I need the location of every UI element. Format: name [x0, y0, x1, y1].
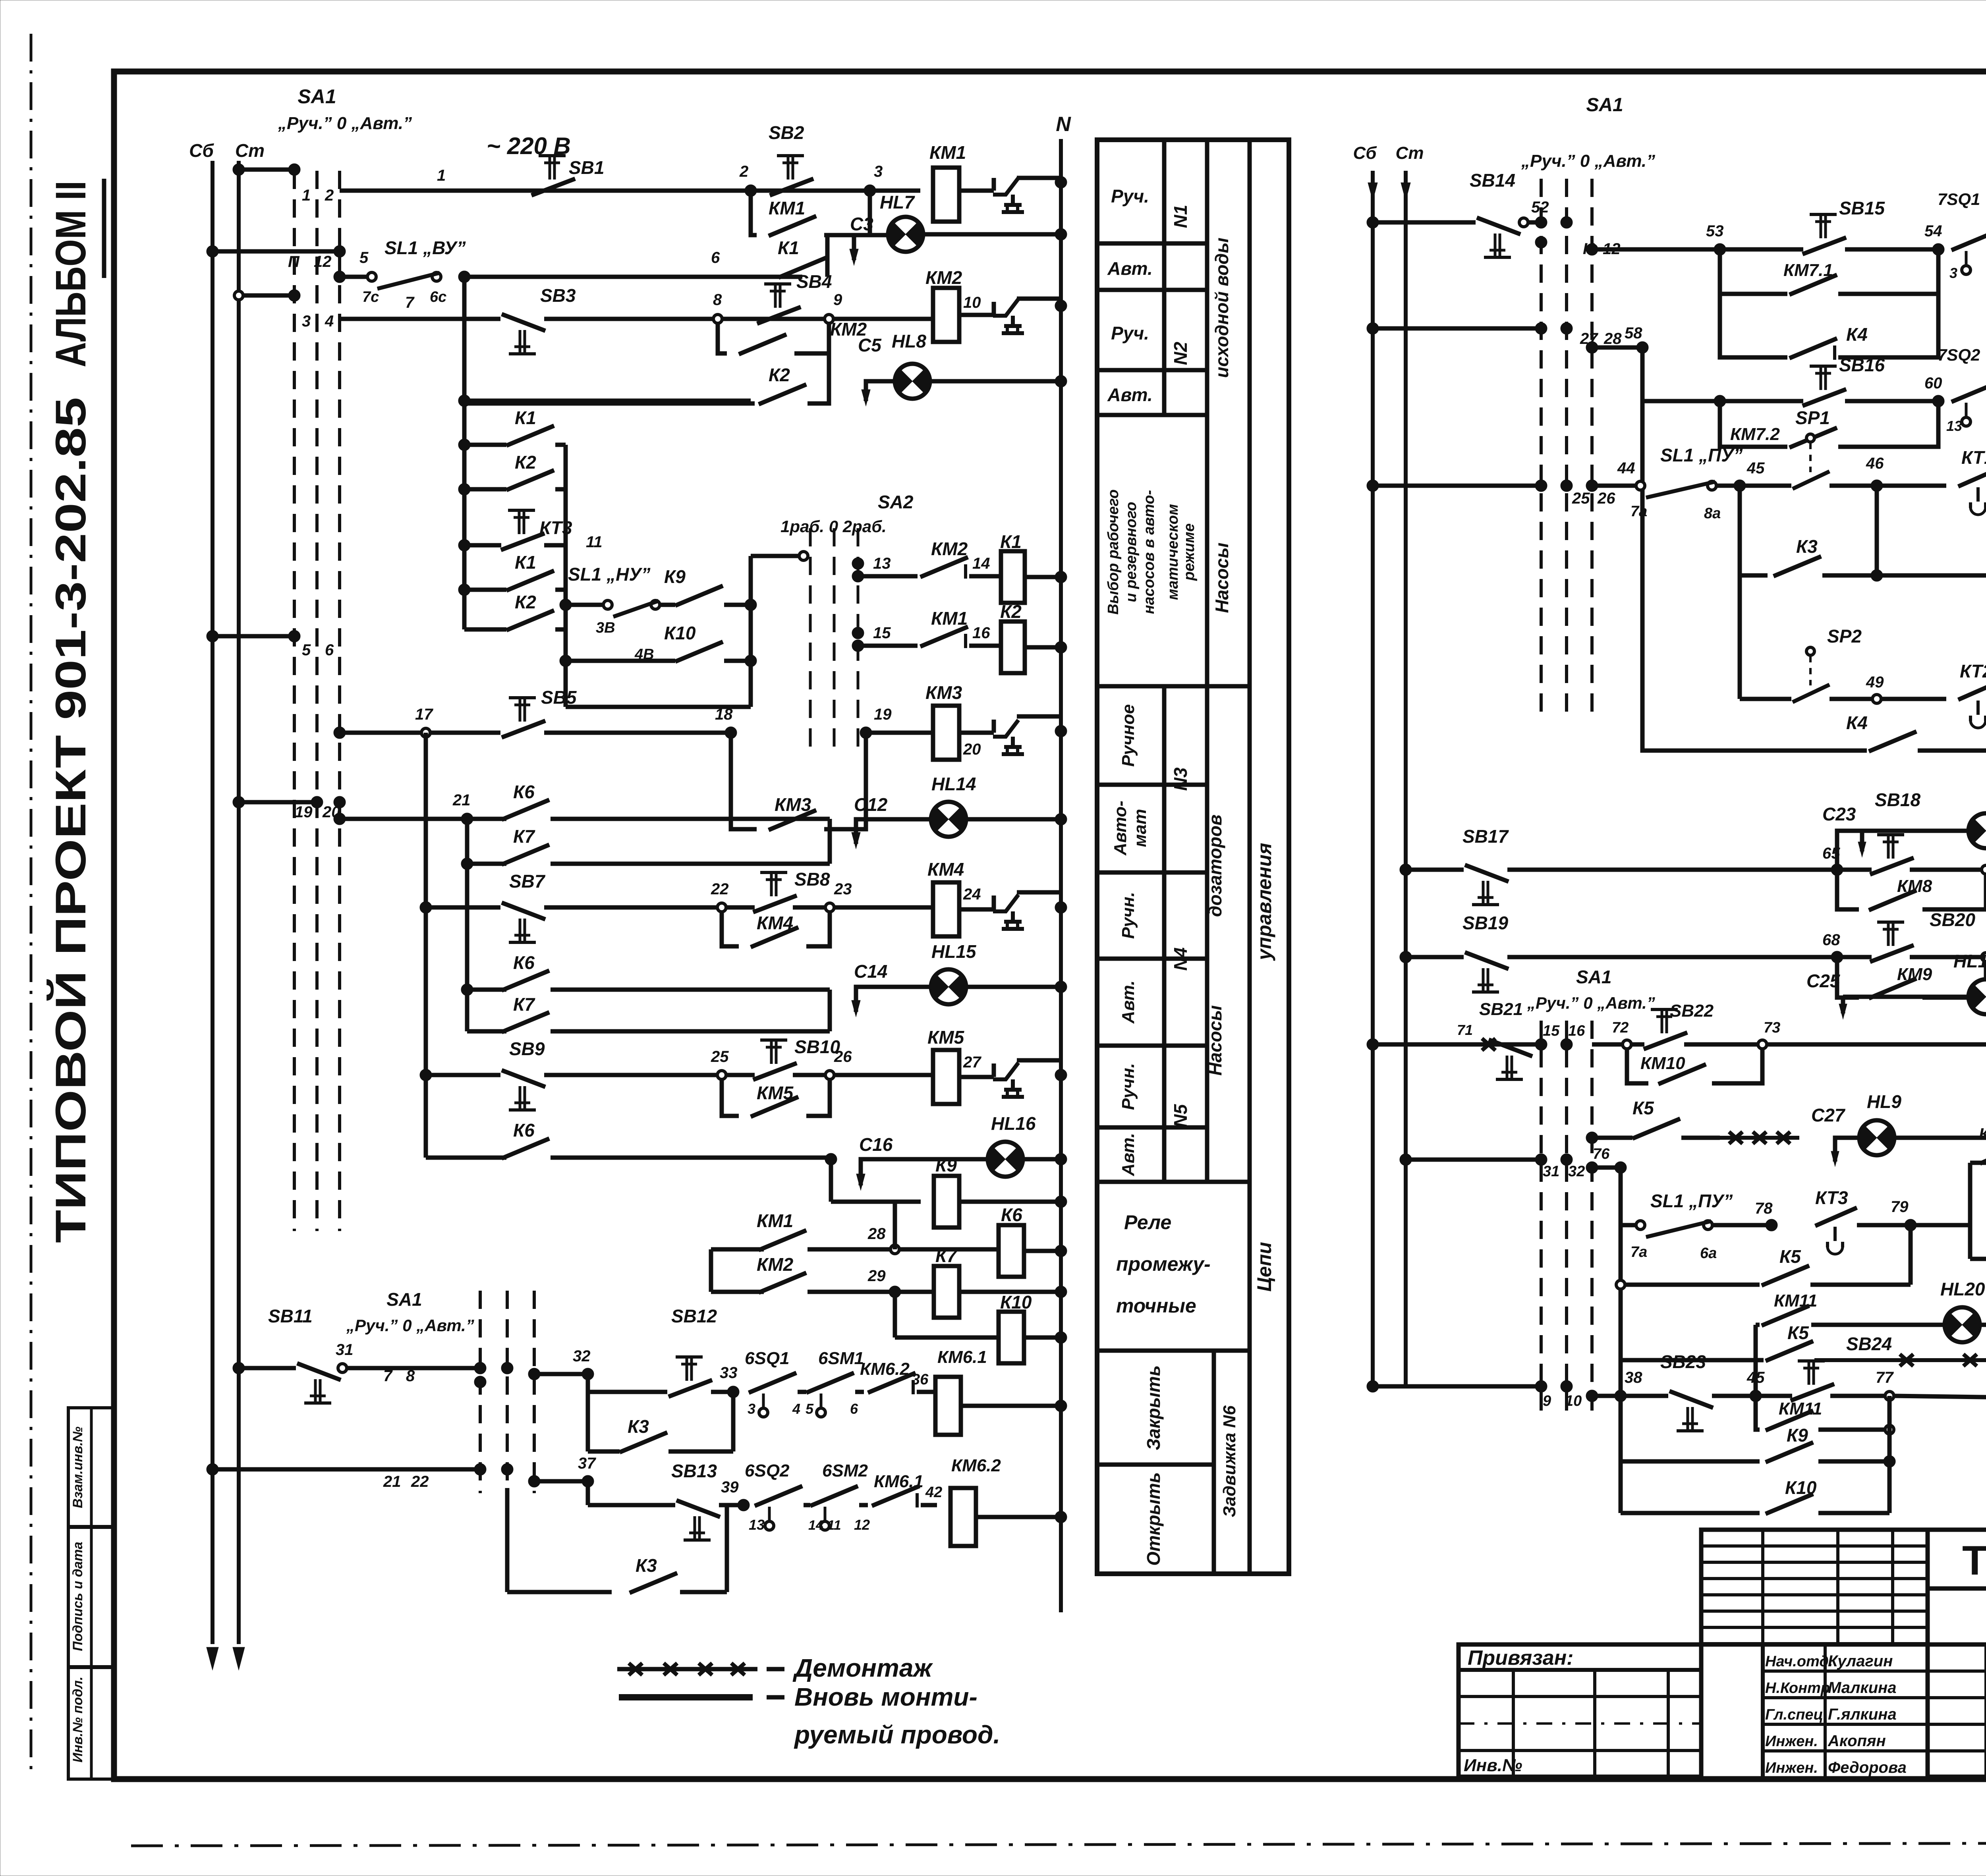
wire 6 to K1 [464, 275, 802, 279]
svg-text:C12: C12 [854, 794, 888, 815]
svg-text:SB14: SB14 [1470, 170, 1515, 191]
svg-text:К6: К6 [513, 1120, 535, 1141]
rung SB11 [233, 1362, 245, 1374]
coil KM10 [1767, 1042, 1986, 1047]
wire jumper 3-4 [239, 293, 294, 298]
limit contact 6SQ1 [749, 1373, 796, 1393]
rung SB7 [424, 733, 428, 1075]
svg-text:„Руч.” 0 „Авт.”: „Руч.” 0 „Авт.” [346, 1316, 474, 1335]
svg-text:К10: К10 [1000, 1292, 1032, 1312]
thermal release KM5 [959, 1075, 994, 1079]
svg-text:HL16: HL16 [991, 1113, 1036, 1134]
svg-text:К9: К9 [935, 1155, 957, 1175]
lamp HL17 [1969, 813, 1986, 848]
svg-text:КМ2: КМ2 [931, 538, 968, 559]
svg-text:АЛЬБОМ II: АЛЬБОМ II [46, 181, 95, 367]
svg-text:КМ1: КМ1 [769, 198, 805, 218]
limit contact 7SQ1 [1951, 230, 1986, 250]
push button SB7 [502, 903, 545, 919]
svg-text:6c: 6c [430, 289, 446, 305]
svg-text:SB13: SB13 [671, 1461, 717, 1481]
svg-text:„Руч.” 0 „Авт.”: „Руч.” 0 „Авт.” [1521, 151, 1655, 171]
svg-text:Авт.: Авт. [1119, 1133, 1138, 1177]
push button SB17 [1465, 865, 1509, 882]
svg-text:Демонтаж: Демонтаж [792, 1654, 933, 1682]
vertical to K5 coil rung [1968, 1163, 1972, 1259]
rung SB19 mixer [1400, 951, 1412, 963]
svg-text:6SQ2: 6SQ2 [745, 1461, 790, 1480]
rung SB13 [586, 1481, 590, 1505]
wire jumper 31-32 [1406, 1158, 1541, 1162]
svg-text:Цепи: Цепи [1253, 1242, 1275, 1291]
limit contact 6SM1 [806, 1373, 854, 1393]
rung K7 second [467, 1029, 506, 1034]
svg-text:режиме: режиме [1181, 523, 1198, 581]
svg-text:13: 13 [1946, 418, 1962, 434]
wire 15 rung K2 coil [852, 627, 864, 639]
svg-text:исходной воды: исходной воды [1211, 237, 1232, 378]
pressure switch SP1 [1806, 434, 1814, 442]
svg-text:КМ3: КМ3 [925, 682, 962, 703]
svg-text:26: 26 [1597, 490, 1615, 507]
svg-text:К1: К1 [1000, 531, 1022, 552]
rung SB12 [586, 1374, 590, 1392]
contact KM5 aux [722, 1079, 739, 1116]
push button SB16 [1802, 389, 1846, 406]
svg-text:4: 4 [325, 313, 334, 330]
coil KM1 [933, 168, 959, 222]
switch SA2 dashed columns [809, 528, 812, 755]
svg-text:23: 23 [834, 880, 852, 898]
contact KM3 aux [731, 733, 757, 829]
bus Ст left [237, 161, 241, 1644]
contact KM8 aux [1837, 874, 1859, 909]
svg-text:КТ3: КТ3 [1979, 1125, 1986, 1143]
svg-text:КМ8: КМ8 [1897, 876, 1932, 896]
svg-text:SB19: SB19 [1462, 913, 1508, 933]
lamp HL9 [1859, 1120, 1894, 1155]
svg-text:2: 2 [325, 187, 334, 204]
push button SB14 [1477, 218, 1520, 234]
svg-text:22: 22 [411, 1473, 429, 1490]
coil KM6.2 [950, 1488, 976, 1546]
node N rung KM5 [1055, 1069, 1067, 1081]
rung SB14 [1373, 220, 1476, 225]
svg-text:4: 4 [792, 1401, 800, 1417]
svg-text:КМ6.1: КМ6.1 [937, 1347, 987, 1367]
svg-text:SB21: SB21 [1479, 1000, 1523, 1019]
rung SL1 ПУ second [1621, 1223, 1636, 1228]
rung HL20 lamp [1756, 1323, 1760, 1327]
svg-text:58: 58 [1625, 324, 1642, 342]
svg-text:SB20: SB20 [1930, 909, 1975, 930]
svg-text:Насосы: Насосы [1211, 542, 1232, 613]
svg-text:КТ2: КТ2 [1960, 661, 1986, 681]
wire jumper 21-22 [213, 1467, 480, 1472]
push button SB5 [502, 721, 545, 737]
svg-text:1: 1 [437, 167, 446, 184]
svg-text:промежу-: промежу- [1116, 1253, 1211, 1275]
svg-text:73: 73 [1764, 1019, 1780, 1036]
rung SL1 НУ [560, 599, 572, 611]
coil K1 [1001, 551, 1025, 603]
feed vertical right block [1615, 1162, 1627, 1173]
svg-text:HL9: HL9 [1867, 1091, 1901, 1112]
contact KM6.1 NC [872, 1486, 920, 1506]
svg-text:31: 31 [336, 1341, 354, 1359]
svg-text:К4: К4 [1846, 324, 1868, 345]
contact K1 rung2 [779, 258, 826, 278]
svg-text:37: 37 [578, 1455, 596, 1472]
svg-text:К5: К5 [1779, 1246, 1801, 1267]
vertical 28 to K9 rung [893, 1202, 897, 1249]
svg-text:31: 31 [1543, 1163, 1559, 1180]
svg-text:Ст: Ст [235, 140, 265, 161]
svg-text:17: 17 [415, 706, 433, 723]
right cluster vertical [749, 556, 753, 707]
rung K10 coil [893, 1292, 897, 1338]
svg-text:SB2: SB2 [769, 122, 804, 143]
svg-text:42: 42 [925, 1484, 942, 1501]
svg-text:К2: К2 [515, 452, 536, 473]
node 26 [825, 1071, 834, 1079]
limit contact 7SQ2 [1951, 382, 1986, 402]
contact KM4 aux [722, 912, 739, 946]
lamp HL20 [1945, 1307, 1980, 1342]
contact KT3 button [458, 539, 470, 551]
svg-text:C5: C5 [858, 335, 882, 355]
node 60 [1932, 395, 1944, 407]
svg-text:Гл.спец: Гл.спец [1765, 1706, 1823, 1723]
svg-text:46: 46 [1866, 455, 1884, 472]
svg-text:Выбор рабочего: Выбор рабочего [1105, 489, 1122, 614]
rung K6: start [334, 813, 346, 825]
contact K1 branch [458, 439, 470, 451]
svg-text:9: 9 [1543, 1393, 1551, 1409]
svg-text:SB4: SB4 [796, 271, 832, 292]
svg-text:П: П [288, 253, 300, 270]
wire 32 [534, 1372, 583, 1376]
svg-text:ТП 901-3- 202.85: ТП 901-3- 202.85 [1962, 1538, 1986, 1584]
svg-text:6SQ1: 6SQ1 [745, 1349, 790, 1368]
svg-text:HL15: HL15 [931, 941, 977, 962]
node after SL1 [458, 271, 470, 283]
push button SB19 [1465, 952, 1509, 969]
rung K9 coil [829, 1159, 833, 1202]
svg-text:Реле: Реле [1124, 1211, 1171, 1233]
left trim dash-dot line [30, 34, 33, 1775]
node 25 [717, 1071, 726, 1079]
wire jumper 15-16 [1373, 1042, 1541, 1047]
svg-text:5: 5 [806, 1401, 814, 1417]
wire 11 to SA2 [751, 554, 799, 558]
svg-text:КМ2: КМ2 [925, 267, 962, 288]
node 79 [1905, 1219, 1916, 1231]
svg-text:КМ11: КМ11 [1779, 1399, 1822, 1419]
svg-text:SB8: SB8 [794, 869, 830, 890]
rung 29 KM2 contact [709, 1249, 713, 1292]
wire 13 rung K1 coil [852, 558, 864, 569]
svg-text:HL7: HL7 [880, 192, 915, 212]
wire lower branch [566, 705, 751, 709]
push button SB21 [1489, 1040, 1532, 1056]
svg-text:5: 5 [302, 641, 311, 659]
svg-text:КМ4: КМ4 [927, 859, 964, 880]
contact KM2 aux [718, 323, 727, 353]
rung SP2 automatic [1738, 575, 1742, 699]
svg-text:К7: К7 [513, 826, 535, 847]
svg-text:К9: К9 [1787, 1425, 1808, 1446]
push button SB18 [1870, 858, 1914, 874]
svg-text:C3: C3 [850, 214, 873, 234]
svg-text:SB16: SB16 [1839, 355, 1885, 375]
switch SA1 dashed columns [293, 171, 296, 1231]
rung K6 third [424, 1075, 428, 1158]
svg-text:3: 3 [302, 313, 311, 330]
contact K2 [759, 384, 806, 404]
wire jumper 9-10 [1373, 1384, 1541, 1389]
svg-text:SL1 „НУ”: SL1 „НУ” [568, 564, 651, 585]
svg-text:7SQ1: 7SQ1 [1938, 190, 1980, 209]
svg-text:Открыть: Открыть [1143, 1472, 1164, 1566]
svg-text:Инжен.: Инжен. [1765, 1733, 1818, 1750]
svg-text:К1: К1 [515, 407, 536, 428]
svg-text:12: 12 [854, 1517, 870, 1533]
svg-text:КТ1: КТ1 [1961, 447, 1986, 468]
svg-text:Инв.№: Инв.№ [1464, 1756, 1522, 1775]
svg-text:SA2: SA2 [878, 492, 914, 512]
rung SB9 [420, 1069, 432, 1081]
rung K6 second [461, 984, 473, 996]
svg-text:14: 14 [972, 555, 990, 572]
svg-text:C16: C16 [859, 1134, 893, 1155]
svg-text:N3: N3 [1170, 767, 1191, 791]
svg-text:насосов в авто-: насосов в авто- [1141, 490, 1157, 614]
svg-text:18: 18 [715, 706, 733, 723]
svg-text:Малкина: Малкина [1828, 1679, 1897, 1697]
svg-text:Вновь монти-: Вновь монти- [794, 1683, 978, 1711]
node 68 [1831, 951, 1843, 963]
node 33 [727, 1386, 739, 1398]
svg-text:45: 45 [1746, 1369, 1765, 1386]
contact K4 below [1720, 294, 1787, 357]
svg-text:Акопян: Акопян [1828, 1732, 1886, 1750]
svg-text:2: 2 [739, 163, 748, 180]
svg-text:16: 16 [1568, 1023, 1585, 1039]
svg-text:К9: К9 [664, 566, 686, 587]
coil KM6.1 [935, 1377, 961, 1435]
lamp HL16 [988, 1142, 1023, 1177]
title names column [1761, 1644, 1765, 1777]
svg-text:матическом: матическом [1165, 504, 1181, 600]
svg-text:49: 49 [1866, 674, 1884, 691]
svg-text:14 11: 14 11 [808, 1518, 841, 1533]
contact KM1 NC [920, 627, 968, 647]
rung K10 [560, 655, 572, 667]
svg-text:13: 13 [749, 1517, 765, 1533]
vertical node23 col [828, 819, 832, 864]
wire K1 up to coil line [825, 235, 830, 277]
pressure switch SP2 [1806, 647, 1814, 655]
svg-text:SB7: SB7 [509, 871, 546, 892]
push button SB1 [531, 179, 575, 195]
rung SB17 mixer 8 [1400, 864, 1412, 876]
node to K9 rung [825, 1153, 837, 1165]
rung K3 contact [1738, 486, 1742, 575]
node N rung KM6.1 [1055, 1400, 1067, 1412]
rung K5 HL9 lamp [1586, 1132, 1598, 1144]
svg-text:К3: К3 [1796, 536, 1818, 557]
svg-text:SP1: SP1 [1795, 407, 1830, 428]
svg-text:76: 76 [1593, 1146, 1610, 1162]
rung SL1 ВУ: wire 5 [340, 275, 367, 279]
lamp HL8 [895, 364, 930, 399]
svg-text:SA1: SA1 [1576, 967, 1611, 987]
contact K2 branch [458, 483, 470, 495]
svg-text:29: 29 [867, 1267, 886, 1285]
node 9 [825, 315, 833, 323]
svg-text:Г.ялкина: Г.ялкина [1828, 1706, 1897, 1723]
svg-text:Сб: Сб [189, 140, 214, 161]
title block main box [1928, 1530, 1986, 1777]
svg-text:К1: К1 [778, 237, 799, 258]
svg-text:С27: С27 [1811, 1105, 1846, 1125]
demontage marks [1729, 1132, 1743, 1144]
svg-text:КМ10: КМ10 [1640, 1054, 1685, 1073]
node N rung KM6.2 [1055, 1511, 1067, 1523]
contact KM6.2 NC [868, 1373, 916, 1393]
svg-text:мат: мат [1130, 809, 1150, 847]
node N rung KM4 [1055, 901, 1067, 913]
svg-text:15: 15 [1543, 1023, 1560, 1039]
contact KM9 aux [1837, 961, 1859, 998]
lamp rung C23 HL17 [1837, 831, 1969, 870]
lamp HL7 [888, 217, 923, 252]
svg-text:6: 6 [850, 1401, 858, 1417]
svg-text:32: 32 [1568, 1163, 1585, 1180]
svg-text:72: 72 [1612, 1019, 1629, 1036]
contact K5 [1632, 1119, 1680, 1139]
push button SB23 [1669, 1391, 1713, 1408]
svg-text:60: 60 [1924, 374, 1942, 392]
svg-text:21: 21 [452, 791, 471, 809]
lamp HL18 [1969, 979, 1986, 1014]
svg-text:6: 6 [325, 641, 334, 659]
svg-text:Задвижка N6: Задвижка N6 [1220, 1405, 1239, 1517]
svg-text:10: 10 [1565, 1393, 1582, 1409]
node 58 [1636, 342, 1648, 353]
switch SA1 right dashed columns [1540, 179, 1543, 715]
title block small revision grid [1701, 1530, 1928, 1644]
svg-text:SB11: SB11 [268, 1306, 313, 1326]
svg-text:Ручн.: Ручн. [1119, 892, 1138, 939]
svg-text:Закрыть: Закрыть [1143, 1365, 1164, 1450]
node 39 [738, 1499, 750, 1511]
svg-text:К3: К3 [636, 1555, 657, 1576]
svg-text:HL8: HL8 [892, 331, 926, 351]
svg-text:N2: N2 [1170, 342, 1191, 365]
svg-text:32: 32 [573, 1347, 591, 1365]
svg-text:3: 3 [748, 1401, 755, 1417]
svg-text:53: 53 [1706, 222, 1724, 240]
rung K10 right [1621, 1511, 1760, 1515]
svg-text:N4: N4 [1170, 948, 1191, 971]
svg-text:SB10: SB10 [794, 1036, 840, 1057]
node 73 [1758, 1040, 1767, 1049]
rung K9 right [1621, 1459, 1760, 1464]
rung SB23 KMN [1586, 1390, 1598, 1402]
svg-text:78: 78 [1755, 1200, 1773, 1217]
contact K9 [660, 603, 675, 607]
svg-text:SB12: SB12 [671, 1306, 717, 1326]
svg-text:5: 5 [359, 249, 369, 266]
node 53 [1714, 243, 1726, 255]
svg-text:77: 77 [1876, 1369, 1894, 1386]
node 28 [891, 1245, 899, 1254]
svg-text:К7: К7 [513, 994, 535, 1015]
rung K3 second [505, 1488, 510, 1592]
svg-text:7c: 7c [362, 289, 379, 305]
contact KT2 [1958, 681, 1986, 700]
contact KM10 aux [1627, 1049, 1648, 1083]
svg-text:9: 9 [833, 291, 842, 309]
coil K9 [934, 1176, 959, 1228]
svg-text:Кулагин: Кулагин [1828, 1652, 1893, 1670]
node 37 [582, 1475, 594, 1487]
svg-text:К5: К5 [1787, 1322, 1809, 1343]
coil K10 [999, 1312, 1024, 1363]
node N rung1 [1055, 176, 1067, 188]
svg-text:21: 21 [383, 1473, 401, 1490]
wire branch 1010 [464, 399, 751, 403]
svg-text:К6: К6 [513, 952, 535, 973]
svg-text:38: 38 [1625, 1369, 1642, 1386]
bus Сб left [211, 161, 214, 1644]
push button SB12 [668, 1380, 712, 1397]
svg-text:SB24: SB24 [1846, 1334, 1892, 1354]
coil KM2 [833, 317, 933, 321]
svg-text:дозаторов: дозаторов [1205, 814, 1225, 917]
svg-text:SB22: SB22 [1670, 1001, 1714, 1021]
wire jumper 27-28 [1373, 326, 1541, 331]
svg-text:Федорова: Федорова [1828, 1759, 1907, 1776]
wire jumper 1-2 [239, 168, 294, 172]
svg-text:КМ2: КМ2 [757, 1254, 794, 1275]
svg-text:Инв.№ подл.: Инв.№ подл. [70, 1677, 85, 1763]
svg-text:К2: К2 [515, 592, 536, 612]
svg-text:3: 3 [1949, 265, 1957, 281]
svg-text:SA1: SA1 [298, 85, 336, 108]
svg-text:руемый провод.: руемый провод. [794, 1720, 1000, 1749]
coil KM4 [834, 905, 933, 910]
svg-text:К2: К2 [1000, 601, 1022, 622]
node 31 [338, 1364, 347, 1372]
push button SB2 [770, 179, 813, 195]
node 18 [725, 727, 737, 739]
svg-text:20: 20 [963, 741, 981, 758]
rung SB15 closing valve 7 [1586, 243, 1598, 255]
svg-text:SA1: SA1 [1586, 95, 1623, 116]
thermal release KM2 [959, 313, 994, 317]
legend new wiring line [619, 1694, 753, 1700]
svg-text:К5: К5 [1632, 1098, 1654, 1118]
svg-text:SL1 „ПУ”: SL1 „ПУ” [1650, 1191, 1733, 1211]
svg-text:HL14: HL14 [931, 774, 976, 794]
svg-text:К10: К10 [1785, 1477, 1817, 1498]
svg-text:39: 39 [721, 1478, 739, 1496]
node N rung KM3 [1055, 725, 1067, 737]
legend демонтаж line [617, 1667, 757, 1671]
